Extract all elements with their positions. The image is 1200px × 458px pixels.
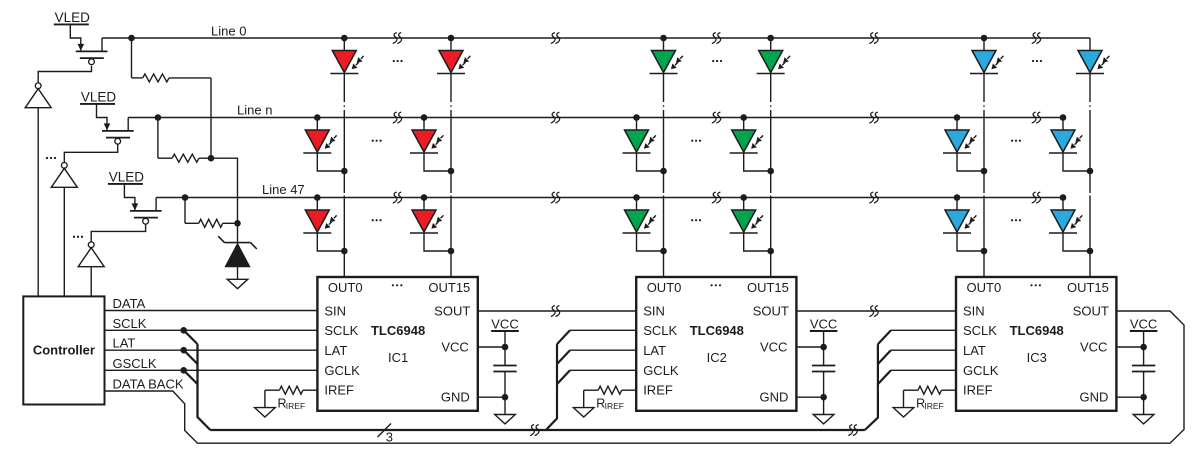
svg-text:TLC6948: TLC6948: [371, 323, 425, 338]
svg-text:Line n: Line n: [237, 103, 272, 118]
wire node A jog down to node B: [211, 158, 238, 223]
LED red row47 col1: [303, 210, 336, 233]
wire R1 down to node A: [210, 78, 212, 158]
node GSCLK bus tap: [180, 367, 187, 374]
wire break mark at x=716.5 y=117.5: [712, 112, 721, 123]
wire cathode row47 col2 to column: [424, 233, 451, 251]
svg-text:SCLK: SCLK: [324, 323, 358, 338]
ground (R_IREF IC3): [893, 408, 914, 417]
column wire OUT0 of IC3: [983, 38, 985, 277]
node row0 column 4 junction: [767, 35, 774, 42]
node column 6 rown cathode junction: [1087, 168, 1094, 175]
svg-text:OUT15: OUT15: [1067, 280, 1109, 295]
column wire OUT15 of IC2: [770, 38, 772, 277]
ground (R_IREF IC1): [255, 408, 276, 417]
break mark SOUT2 wire: [869, 306, 878, 317]
svg-text:Controller: Controller: [33, 343, 95, 358]
wire anode row47 col5: [956, 198, 958, 211]
svg-text:3: 3: [386, 430, 393, 445]
wire LAT: [105, 349, 318, 351]
wire DATA BACK return loop: [105, 311, 1185, 443]
wire anode rown col3: [636, 118, 638, 131]
ellipsis more LEDs row 47 group 1: [372, 219, 382, 221]
node row47 column 3 anode junction: [633, 194, 640, 201]
bus tap IC2 GCLK: [557, 370, 636, 384]
resistor R_IREF (IC1): [265, 386, 318, 411]
buffer/inverter U3: [78, 242, 104, 267]
LED blue rown col5: [943, 130, 976, 153]
wire cathode rown col6 to column: [1063, 153, 1090, 171]
svg-text:SIN: SIN: [963, 304, 985, 319]
wire cathode row47 col5 to column: [957, 233, 984, 251]
svg-text:DATA: DATA: [113, 296, 146, 311]
wire VCC pin IC2: [796, 331, 826, 366]
node row47 column 5 anode junction: [954, 194, 961, 201]
svg-text:SIN: SIN: [643, 304, 665, 319]
svg-text:OUT15: OUT15: [747, 280, 789, 295]
op IC2 TLC6948 block: [636, 277, 796, 411]
svg-text:Line 47: Line 47: [262, 182, 305, 197]
wire anode row47 col2: [423, 198, 425, 211]
wire GND pin IC1: [478, 372, 509, 415]
wire break mark at x=716.5 y=197.5: [712, 192, 721, 203]
ellipsis more LEDs row0 group 2: [712, 60, 722, 62]
capacitor C3 (VCC decoupling): [1132, 366, 1155, 372]
wire GSCLK: [105, 369, 318, 371]
svg-text:VCC: VCC: [1080, 340, 1107, 355]
node SCLK bus tap: [180, 327, 187, 334]
svg-text:SOUT: SOUT: [1073, 304, 1109, 319]
node row0 column 2 junction: [448, 35, 455, 42]
bus tap IC2 LAT: [557, 350, 636, 364]
svg-text:LAT: LAT: [113, 336, 136, 351]
label Line 47: [262, 182, 305, 197]
wire VCC pin IC3: [1116, 331, 1146, 366]
wire break mark at x=874 y=197.5: [869, 192, 878, 203]
LED green row0 col4: [757, 51, 790, 74]
transistor Q3 line 47 (PMOS high-side switch): [108, 169, 162, 224]
node column 3 row47 cathode junction: [660, 248, 667, 255]
wire break mark at x=397.4 y=38: [393, 33, 402, 44]
wire gate Q2 to buffer U2: [64, 145, 117, 163]
node row47 column 4 anode junction: [740, 194, 747, 201]
node row47 column 1 anode junction: [314, 194, 321, 201]
svg-text:VCC: VCC: [491, 317, 518, 332]
wire break mark at x=397.4 y=197.5: [393, 192, 402, 203]
resistor R_IREF (IC2): [584, 386, 637, 411]
wire anode row47 col1: [316, 198, 318, 211]
node column 6 row47 cathode junction: [1087, 248, 1094, 255]
transistor Q2 line n (PMOS high-side switch): [80, 89, 134, 144]
node rown column 6 anode junction: [1060, 114, 1067, 121]
wire buffer U2 input to controller: [63, 187, 65, 296]
bus tap IC3 LAT: [878, 350, 956, 364]
svg-text:IC1: IC1: [388, 350, 408, 365]
LED green row47 col3: [623, 210, 656, 233]
resistor R3: [185, 219, 238, 227]
node column 2 row47 cathode junction: [448, 248, 455, 255]
svg-text:GCLK: GCLK: [963, 363, 999, 378]
wire break mark at x=874 y=38: [869, 33, 878, 44]
bus break mark before IC2: [530, 425, 539, 436]
node B (R3/zener junction): [234, 220, 241, 227]
op IC1 TLC6948 block: [317, 277, 477, 411]
LED blue rown col6: [1049, 130, 1082, 153]
node A (R1/R2 junction): [208, 155, 215, 162]
resistor R2: [158, 154, 211, 162]
svg-text:IC3: IC3: [1027, 350, 1047, 365]
wire anode row47 col3: [636, 198, 638, 211]
svg-text:VCC: VCC: [760, 340, 787, 355]
node column 2 rown cathode junction: [448, 168, 455, 175]
resistor R1: [132, 74, 212, 82]
wire break mark at x=555.5 y=197.5: [551, 192, 560, 203]
wire node B to zener D1: [237, 223, 239, 243]
node column 1 rown cathode junction: [341, 168, 348, 175]
wire line 47 junction down to R3: [184, 198, 186, 224]
node rown column 1 anode junction: [314, 114, 321, 121]
op IC3 TLC6948 block: [956, 277, 1116, 411]
capacitor C2 (VCC decoupling): [812, 366, 835, 372]
label LAT: [113, 336, 136, 351]
wire line0 junction down to R1: [131, 38, 133, 78]
ellipsis more LEDs row 47 group 2: [691, 219, 701, 221]
svg-text:GCLK: GCLK: [324, 363, 360, 378]
LED green rown col3: [623, 130, 656, 153]
ellipsis more LEDs row n group 2: [691, 140, 701, 142]
wire cathode rown col1 to column: [317, 153, 344, 171]
LED red row0 col1: [330, 51, 363, 74]
wire buffer U1 input to controller: [37, 108, 39, 297]
column wire OUT0 of IC1: [343, 38, 345, 277]
wire GND pin IC3: [1116, 372, 1146, 415]
node row0 column 3 junction: [660, 35, 667, 42]
wire cathode rown col3 to column: [637, 153, 664, 171]
svg-text:OUT0: OUT0: [647, 280, 682, 295]
ground (VCC cap IC1): [495, 415, 516, 424]
node column 3 rown cathode junction: [660, 168, 667, 175]
zener diode D1: [218, 236, 257, 279]
wire cathode rown col5 to column: [957, 153, 984, 171]
svg-text:SCLK: SCLK: [643, 323, 677, 338]
svg-text:VLED: VLED: [109, 169, 145, 184]
label DATA BACK: [113, 377, 184, 392]
svg-text:IC2: IC2: [707, 350, 727, 365]
svg-text:TLC6948: TLC6948: [690, 323, 744, 338]
LED blue row0 col6: [1076, 51, 1109, 74]
node line0 drain junction: [128, 35, 135, 42]
wire break mark at x=1036.4 y=117.5: [1032, 112, 1041, 123]
svg-text:IREF: IREF: [324, 383, 354, 398]
resistor R_IREF (IC3): [904, 386, 957, 411]
column wire OUT15 of IC3: [1089, 38, 1091, 277]
LED red rown col2: [410, 130, 443, 153]
label Line 0: [211, 24, 246, 39]
LED blue row47 col5: [943, 210, 976, 233]
wire break mark at x=1036.4 y=38: [1032, 33, 1041, 44]
label SCLK: [113, 316, 147, 331]
LED blue row0 col5: [970, 51, 1003, 74]
ellipsis more LEDs row n group 3: [1011, 140, 1021, 142]
wire anode rown col4: [743, 118, 745, 131]
bus tap IC2 SCLK: [557, 330, 636, 344]
wire cathode row47 col3 to column: [637, 233, 664, 251]
svg-text:LAT: LAT: [963, 343, 986, 358]
node row0 column 1 junction: [341, 35, 348, 42]
node LAT bus tap: [180, 347, 187, 354]
break mark SOUT1 wire: [551, 306, 560, 317]
wire break mark at x=555.5 y=117.5: [551, 112, 560, 123]
node row47 column 2 anode junction: [421, 194, 428, 201]
LED red rown col1: [303, 130, 336, 153]
svg-text:SOUT: SOUT: [434, 304, 470, 319]
label Line n: [237, 103, 272, 118]
wire anode rown col5: [956, 118, 958, 131]
svg-text:GND: GND: [1080, 390, 1109, 405]
wire GND pin IC2: [796, 372, 826, 415]
wire break mark at x=1036.4 y=197.5: [1032, 192, 1041, 203]
bus width marker /3: [378, 424, 394, 445]
buffer/inverter U1: [25, 83, 51, 108]
node line 47 junction: [182, 194, 189, 201]
svg-text:VLED: VLED: [55, 10, 91, 25]
wire anode rown col6: [1062, 118, 1064, 131]
svg-text:IREF: IREF: [963, 383, 993, 398]
column wire OUT0 of IC2: [663, 38, 665, 277]
svg-text:IREF: IREF: [286, 401, 305, 411]
wire break mark at x=716.5 y=38: [712, 33, 721, 44]
svg-text:OUT0: OUT0: [328, 280, 363, 295]
wire SCLK: [105, 329, 318, 331]
wire SOUT IC1 to SIN IC2: [478, 310, 636, 312]
node rown column 2 anode junction: [421, 114, 428, 121]
VCC supply label (IC3): [1130, 317, 1158, 332]
svg-text:Line 0: Line 0: [211, 24, 246, 39]
wire Line 0 (row 0): [102, 37, 1090, 39]
svg-text:VLED: VLED: [81, 89, 117, 104]
VCC supply label (IC2): [810, 317, 838, 332]
wire buffer U3 input to controller: [90, 267, 92, 297]
svg-text:VCC: VCC: [1130, 317, 1157, 332]
wire line n junction down to R2: [157, 118, 159, 159]
transistor Q1 line 0 (PMOS high-side switch): [54, 10, 108, 65]
wire anode row47 col6: [1062, 198, 1064, 211]
wire cathode rown col4 to column: [744, 153, 771, 171]
svg-text:SCLK: SCLK: [113, 316, 147, 331]
node rown column 5 anode junction: [954, 114, 961, 121]
ellipsis more LEDs row n group 1: [372, 140, 382, 142]
svg-text:IREF: IREF: [643, 383, 673, 398]
bus diagonal tap SCLK: [184, 330, 198, 344]
svg-text:OUT15: OUT15: [428, 280, 470, 295]
wire break mark at x=397.4 y=117.5: [393, 112, 402, 123]
svg-text:DATA BACK: DATA BACK: [113, 377, 184, 392]
svg-text:IREF: IREF: [924, 401, 943, 411]
column wire OUT15 of IC1: [450, 38, 452, 277]
controller block: [23, 296, 104, 404]
wire Line 47 (row 47): [156, 197, 1063, 199]
svg-text:VCC: VCC: [810, 317, 837, 332]
wire break mark at x=874 y=117.5: [869, 112, 878, 123]
wire Line n (row n): [128, 117, 1063, 119]
VCC supply label (IC1): [491, 317, 519, 332]
ellipsis more LEDs row 47 group 3: [1011, 219, 1021, 221]
wire cathode row47 col1 to column: [317, 233, 344, 251]
node row0 column 5 junction: [981, 35, 988, 42]
ground (R_IREF IC2): [573, 408, 594, 417]
label DATA: [113, 296, 146, 311]
label GSCLK: [113, 356, 157, 371]
ellipsis more LEDs row0 group 1: [393, 60, 403, 62]
wire cathode row47 col6 to column: [1063, 233, 1090, 251]
svg-text:VCC: VCC: [441, 340, 468, 355]
wire anode rown col1: [316, 118, 318, 131]
svg-text:TLC6948: TLC6948: [1010, 323, 1064, 338]
svg-text:GSCLK: GSCLK: [113, 356, 157, 371]
bus riser to IC3: [865, 344, 878, 430]
LED green row47 col4: [730, 210, 763, 233]
svg-text:SCLK: SCLK: [963, 323, 997, 338]
capacitor C1 (VCC decoupling): [493, 366, 516, 372]
bus tap IC3 SCLK: [878, 330, 956, 344]
buffer/inverter U2: [51, 163, 77, 188]
node row47 column 6 anode junction: [1060, 194, 1067, 201]
LED red row47 col2: [410, 210, 443, 233]
node column 5 rown cathode junction: [981, 168, 988, 175]
node column 1 row47 cathode junction: [341, 248, 348, 255]
svg-text:LAT: LAT: [643, 343, 666, 358]
svg-text:SOUT: SOUT: [753, 304, 789, 319]
svg-text:SIN: SIN: [324, 304, 346, 319]
ground (VCC cap IC2): [813, 415, 834, 424]
ellipsis more line drivers (upper): [46, 157, 56, 159]
svg-text:IREF: IREF: [605, 401, 624, 411]
node rown column 4 anode junction: [740, 114, 747, 121]
bus riser to IC2: [546, 344, 557, 430]
LED green rown col4: [730, 130, 763, 153]
wire anode rown col2: [423, 118, 425, 131]
svg-text:OUT0: OUT0: [967, 280, 1002, 295]
ellipsis more line drivers (lower): [73, 236, 83, 238]
svg-text:GCLK: GCLK: [643, 363, 679, 378]
wire VCC pin IC1: [478, 331, 509, 366]
wire cathode row47 col4 to column: [744, 233, 771, 251]
bus wire vertical + bottom run: [198, 344, 865, 430]
ground (VCC cap IC3): [1133, 415, 1154, 424]
wire anode row47 col4: [743, 198, 745, 211]
wire break mark at x=555.5 y=38: [551, 33, 560, 44]
node column 5 row47 cathode junction: [981, 248, 988, 255]
node column 4 row47 cathode junction: [767, 248, 774, 255]
node rown column 3 anode junction: [633, 114, 640, 121]
bus diagonal tap LAT: [184, 350, 198, 364]
bus tap IC3 GCLK: [878, 370, 956, 384]
wire DATA (controller to IC1 SIN): [105, 310, 318, 312]
bus diagonal tap GSCLK: [184, 370, 198, 384]
svg-text:GND: GND: [441, 390, 470, 405]
LED red row0 col2: [437, 51, 470, 74]
wire gate Q3 to buffer U3: [91, 225, 145, 242]
wire cathode rown col2 to column: [424, 153, 451, 171]
node line n junction: [155, 114, 162, 121]
ellipsis more LEDs row0 group 3: [1032, 60, 1042, 62]
svg-text:GND: GND: [760, 390, 789, 405]
bus break mark before IC3: [848, 425, 857, 436]
LED green row0 col3: [650, 51, 683, 74]
LED blue row47 col6: [1049, 210, 1082, 233]
svg-text:LAT: LAT: [324, 343, 347, 358]
wire gate Q1 to buffer U1: [38, 66, 91, 83]
ground (zener): [227, 279, 248, 288]
node column 4 rown cathode junction: [767, 168, 774, 175]
wire SOUT IC2 to SIN IC3: [796, 310, 956, 312]
